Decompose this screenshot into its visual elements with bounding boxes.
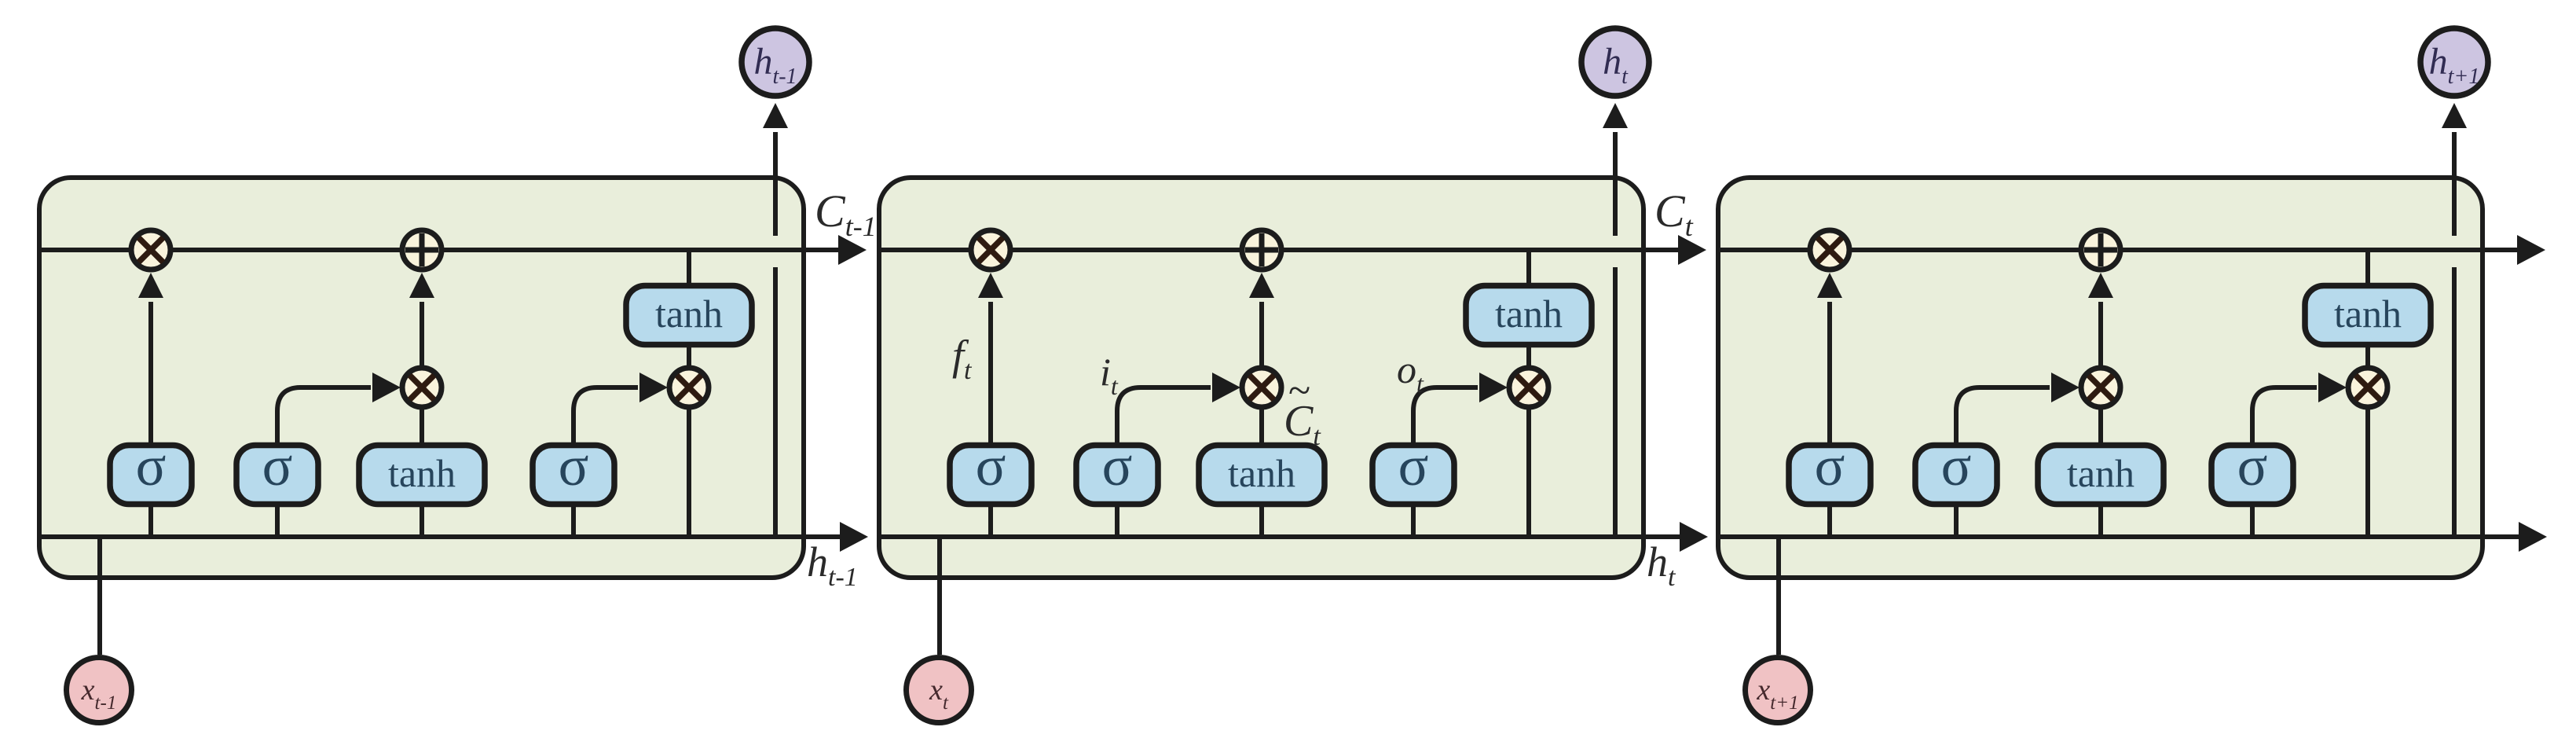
svg-text:tanh: tanh (2067, 451, 2134, 495)
wire candidate multiply to add, cell 3 (2098, 302, 2103, 367)
sigma box (forget gate), cell 1 (110, 435, 192, 505)
wire h branch upper, cell 2 (1613, 132, 1618, 236)
arrow into forget multiply, cell 3 (1817, 273, 1842, 298)
LSTM cell 3 body (1718, 178, 2483, 578)
arrow C out, cell 1 (838, 235, 867, 265)
wire x input, cell 1 (97, 537, 102, 655)
wire input gate to h line, cell 1 (275, 504, 280, 537)
wire output gate to h line, cell 2 (1411, 504, 1416, 537)
multiply node (output), cell 3 (2348, 368, 2387, 407)
wire tanh to candidate multiply, cell 2 (1259, 409, 1264, 446)
multiply node (output), cell 2 (1509, 368, 1548, 407)
wire input gate to candidate multiply, cell 2 (1117, 387, 1211, 446)
svg-text:ht: ht (1647, 538, 1676, 592)
wire output multiply to h line, cell 2 (1526, 409, 1531, 537)
arrow into candidate multiply, cell 1 (372, 373, 401, 402)
wire C to output tanh, cell 1 (687, 250, 691, 287)
wire tanh to candidate multiply, cell 1 (420, 409, 424, 446)
tanh box (output squash), cell 1 (626, 286, 752, 345)
node h_{t+1} output circle, cell 3 (2420, 28, 2488, 96)
arrow into forget multiply, cell 2 (978, 273, 1003, 298)
svg-text:tanh: tanh (1228, 451, 1295, 495)
multiply node (input x candidate), cell 2 (1242, 368, 1281, 407)
multiply node (output), cell 1 (669, 368, 709, 407)
wire candidate multiply to add, cell 1 (420, 302, 424, 367)
wire forget gate to h line, cell 3 (1827, 504, 1832, 537)
wire x input, cell 3 (1776, 537, 1781, 655)
wire C (cell state line), cell 3 (1718, 248, 2517, 252)
tanh box (output squash), cell 3 (2305, 286, 2431, 345)
tanh box (candidate), cell 3 (2038, 446, 2164, 505)
wire h (hidden state line), cell 1 (39, 534, 840, 539)
sigma box (input gate), cell 2 (1076, 435, 1158, 505)
arrow into h_{t} circle, cell 2 (1603, 103, 1628, 128)
wire C (cell state line), cell 2 (879, 248, 1678, 252)
wire forget gate up, cell 3 (1827, 302, 1832, 446)
sigma box (output gate), cell 1 (533, 435, 614, 505)
LSTM cell 1 body (39, 178, 804, 578)
wire output gate to output multiply, cell 2 (1413, 387, 1478, 446)
wire forget gate to h line, cell 1 (148, 504, 153, 537)
wire candidate gate to h line, cell 1 (420, 504, 424, 537)
wire output gate to h line, cell 1 (571, 504, 576, 537)
tanh box (candidate), cell 1 (359, 446, 485, 505)
tanh box (output squash), cell 2 (1466, 286, 1592, 345)
tanh box (candidate), cell 2 (1199, 446, 1325, 505)
LSTM cell 2 body (879, 178, 1643, 578)
arrow into forget multiply, cell 1 (138, 273, 163, 298)
arrow h out, cell 3 (2519, 522, 2547, 552)
wire candidate gate to h line, cell 3 (2098, 504, 2103, 537)
svg-text:tanh: tanh (388, 451, 456, 495)
node h_{t} output circle, cell 2 (1581, 28, 1649, 96)
wire input gate to h line, cell 3 (1954, 504, 1959, 537)
wire h branch upper, cell 1 (773, 132, 778, 236)
arrow into candidate multiply, cell 3 (2051, 373, 2079, 402)
wire input gate to h line, cell 2 (1115, 504, 1119, 537)
svg-text:tanh: tanh (655, 292, 723, 336)
arrow into h_{t+1} circle, cell 3 (2442, 103, 2467, 128)
arrow into add, cell 3 (2088, 273, 2113, 298)
node h_{t-1} output circle, cell 1 (742, 28, 809, 96)
wire C to output tanh, cell 2 (1526, 250, 1531, 287)
wire candidate multiply to add, cell 2 (1259, 302, 1264, 367)
wire candidate gate to h line, cell 2 (1259, 504, 1264, 537)
multiply node on C line (forget), cell 2 (971, 230, 1010, 270)
wire input gate to candidate multiply, cell 3 (1956, 387, 2050, 446)
wire output tanh to multiply, cell 2 (1526, 345, 1531, 368)
arrow into h_{t-1} circle, cell 1 (763, 103, 788, 128)
arrow h out, cell 2 (1680, 522, 1708, 552)
sigma box (input gate), cell 1 (236, 435, 318, 505)
wire output tanh to multiply, cell 1 (687, 345, 691, 368)
wire C (cell state line), cell 1 (39, 248, 838, 252)
wire h branch lower, cell 1 (773, 267, 778, 537)
node x_{t-1} input circle, cell 1 (67, 658, 132, 723)
svg-text:Ct: Ct (1654, 185, 1694, 242)
sigma box (output gate), cell 2 (1372, 435, 1454, 505)
wire forget gate up, cell 2 (988, 302, 993, 446)
wire h branch lower, cell 2 (1613, 267, 1618, 537)
wire input gate to candidate multiply, cell 1 (277, 387, 371, 446)
add node on C line, cell 1 (402, 230, 442, 270)
multiply node (input x candidate), cell 3 (2081, 368, 2120, 407)
arrow into output multiply, cell 3 (2318, 373, 2347, 402)
wire h (hidden state line), cell 3 (1718, 534, 2519, 539)
arrow C out, cell 3 (2517, 235, 2545, 265)
multiply node (input x candidate), cell 1 (402, 368, 442, 407)
add node on C line, cell 2 (1242, 230, 1281, 270)
svg-text:ht-1: ht-1 (807, 538, 858, 592)
svg-text:Ct-1: Ct-1 (815, 185, 877, 242)
multiply node on C line (forget), cell 1 (131, 230, 170, 270)
multiply node on C line (forget), cell 3 (1810, 230, 1849, 270)
svg-text:~: ~ (1288, 369, 1310, 413)
wire h (hidden state line), cell 2 (879, 534, 1680, 539)
svg-text:tanh: tanh (1495, 292, 1563, 336)
arrow into output multiply, cell 1 (639, 373, 668, 402)
wire C to output tanh, cell 3 (2365, 250, 2370, 287)
wire x input, cell 2 (937, 537, 942, 655)
sigma box (forget gate), cell 2 (950, 435, 1031, 505)
wire output gate to output multiply, cell 3 (2252, 387, 2317, 446)
wire output multiply to h line, cell 3 (2365, 409, 2370, 537)
sigma box (input gate), cell 3 (1915, 435, 1997, 505)
wire output tanh to multiply, cell 3 (2365, 345, 2370, 368)
arrow into add, cell 1 (409, 273, 434, 298)
wire forget gate up, cell 1 (148, 302, 153, 446)
node x_{t+1} input circle, cell 3 (1746, 658, 1811, 723)
arrow C out, cell 2 (1678, 235, 1706, 265)
sigma box (output gate), cell 3 (2211, 435, 2293, 505)
arrow h out, cell 1 (840, 522, 868, 552)
wire output multiply to h line, cell 1 (687, 409, 691, 537)
wire h branch lower, cell 3 (2452, 267, 2457, 537)
arrow into add, cell 2 (1249, 273, 1274, 298)
wire output gate to output multiply, cell 1 (573, 387, 638, 446)
node x_{t} input circle, cell 2 (907, 658, 972, 723)
sigma box (forget gate), cell 3 (1789, 435, 1871, 505)
svg-text:tanh: tanh (2334, 292, 2402, 336)
add node on C line, cell 3 (2081, 230, 2120, 270)
wire h branch upper, cell 3 (2452, 132, 2457, 236)
arrow into candidate multiply, cell 2 (1212, 373, 1240, 402)
wire forget gate to h line, cell 2 (988, 504, 993, 537)
wire tanh to candidate multiply, cell 3 (2098, 409, 2103, 446)
wire output gate to h line, cell 3 (2250, 504, 2255, 537)
arrow into output multiply, cell 2 (1479, 373, 1508, 402)
